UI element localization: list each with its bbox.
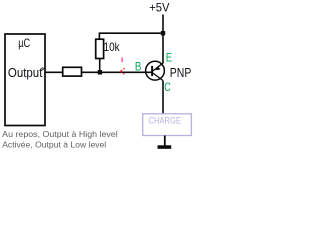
Q1 collector diagonal (153, 73, 163, 81)
resistor R1 (series base resistor) (63, 67, 82, 76)
Q1 base bar (151, 66, 153, 76)
svg-text:Output: Output (8, 65, 43, 80)
resistor R2 10k (96, 39, 104, 58)
wire R2 top to +5V rail (99, 33, 163, 39)
Q1 emitter arrow (PNP) (156, 66, 161, 70)
µC box U1 (5, 34, 45, 126)
Q1 emitter diagonal (153, 63, 163, 71)
pin marker (superscript dot) (42, 68, 44, 70)
wire Output to R1 (45, 71, 63, 73)
wire +5V stub (162, 15, 164, 34)
svg-text:E: E (166, 51, 173, 65)
wire R1 to node A (82, 71, 101, 73)
wire CHARGE to ground (164, 136, 166, 146)
node A junction dot (98, 70, 102, 74)
current label I (pink) (121, 57, 122, 62)
svg-text:+5V: +5V (149, 1, 169, 15)
current arrow apex (120, 70, 122, 72)
svg-text:Au repos, Output à High level: Au repos, Output à High level (2, 129, 118, 139)
transistor Q1 body circle (146, 61, 165, 80)
svg-text:10k: 10k (104, 40, 121, 54)
wire emitter to rail (162, 33, 164, 63)
svg-text:PNP: PNP (170, 65, 192, 80)
current arrow red dashed (121, 68, 125, 74)
+5V node dot (161, 31, 165, 35)
svg-text:Activée, Output à Low level: Activée, Output à Low level (2, 139, 106, 149)
wire node A to base (100, 71, 152, 73)
svg-text:µC: µC (18, 36, 30, 50)
svg-text:CHARGE: CHARGE (149, 116, 182, 127)
svg-text:C: C (164, 80, 171, 94)
svg-text:B: B (135, 59, 142, 73)
ground symbol (158, 145, 172, 149)
CHARGE load box (143, 114, 192, 136)
wire node A up to R2 (99, 59, 101, 72)
wire collector down to CHARGE (162, 81, 164, 114)
